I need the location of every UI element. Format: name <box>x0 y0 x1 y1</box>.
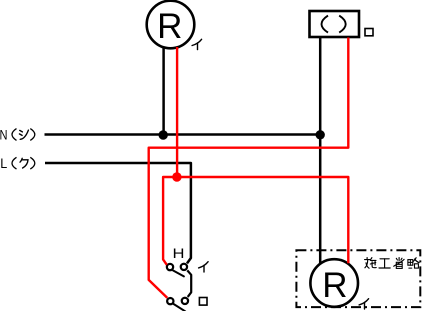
label ロ for switch <box>199 298 207 306</box>
junction node red at lamp feed <box>172 172 181 181</box>
wire link switch イ to switch ロ (black) <box>187 270 191 297</box>
dashed box 施工省略 (construction omitted) <box>296 250 420 307</box>
ceiling light ( ) box <box>310 11 360 37</box>
wire red from junction to omitted lamp <box>177 177 348 263</box>
省 <box>394 258 404 269</box>
label N（シ） <box>0 126 35 142</box>
label H <box>173 245 185 261</box>
label イ for omitted lamp <box>359 299 369 309</box>
wire L bus (black) to switch イ <box>45 163 191 263</box>
wire red ceiling light to switch ロ <box>149 38 349 298</box>
略 <box>408 258 419 268</box>
wire red from junction to switch イ <box>163 177 177 265</box>
svg-text:R: R <box>157 7 182 46</box>
svg-text:L: L <box>0 155 7 171</box>
omitted lamp R (イ) in dashed box <box>310 259 358 307</box>
junction node on N at ceiling drop <box>316 130 325 139</box>
施 <box>365 258 377 269</box>
svg-text:R: R <box>322 266 347 305</box>
lamp receptacle R (イ) top <box>147 1 195 49</box>
wire lamp R black lead <box>162 47 165 135</box>
switch ロ <box>167 298 188 311</box>
switch イ (H marked) <box>167 264 187 277</box>
wire lamp R red lead (red) <box>176 47 178 177</box>
svg-text:N: N <box>0 126 8 142</box>
junction node on N at lamp drop <box>159 130 168 139</box>
label L（ク） <box>0 155 35 171</box>
label イ for top lamp <box>192 39 202 49</box>
工 <box>379 259 390 268</box>
wire N bus (black) <box>45 133 321 136</box>
label ロ for ceiling light <box>365 29 373 36</box>
svg-text:H: H <box>173 245 185 261</box>
wire ceiling light black lead down to omitted lamp <box>319 38 322 264</box>
label 施工省略 (kanji, hand-drawn) <box>365 258 420 269</box>
label イ for switch <box>199 262 209 272</box>
